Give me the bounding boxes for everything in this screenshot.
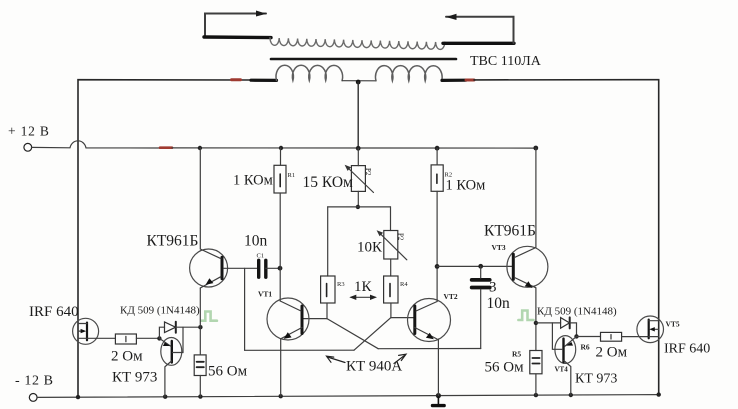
wire: primary center segment xyxy=(342,80,376,82)
transistor КТ961Б left driver : circle xyxy=(190,249,228,287)
node dots on bottom rail xyxy=(76,395,80,399)
svg-text:R3: R3 xyxy=(337,281,345,288)
red mark on right lead xyxy=(466,79,474,82)
wire: +12V rail xyxy=(172,147,536,149)
svg-text:15 КОм: 15 КОм xyxy=(303,174,354,191)
wire R1 top to rail xyxy=(280,148,282,165)
wire: primary left lead to left rail xyxy=(78,80,252,398)
svg-text:1 КОм: 1 КОм xyxy=(233,173,273,189)
wire: bottom -12V rail xyxy=(37,395,659,398)
wire R5 bottom to rail xyxy=(535,374,537,395)
left driver base bar xyxy=(221,257,224,279)
node R2 bottom / VT2 collector xyxy=(435,264,440,269)
VT3 emitter with arrow xyxy=(515,278,536,288)
MOSFET left channel bar xyxy=(86,323,88,341)
left driver base lead to C1 xyxy=(224,267,258,269)
VT2 emitter with arrow xyxy=(415,328,437,340)
svg-text:ТВС 110ЛА: ТВС 110ЛА xyxy=(470,54,542,69)
node C2 top xyxy=(478,264,483,269)
wire: right down to 10K pot xyxy=(390,207,392,231)
transistor КТ973 left (VT?) : ellipse xyxy=(161,338,182,366)
ground symbol xyxy=(437,396,439,405)
wire P2 top to rail xyxy=(357,148,359,165)
wire: horizontal between R3 and 10K columns xyxy=(328,206,391,208)
node right gate drive xyxy=(574,334,578,338)
VT4 base bar xyxy=(562,339,564,363)
node: left gate drive node xyxy=(157,336,161,340)
transformer T1 secondary winding xyxy=(270,38,445,50)
wire: node to diode anode right xyxy=(536,322,561,324)
VT2 collector diagonal xyxy=(416,302,437,312)
svg-text:VТ1: VТ1 xyxy=(258,290,272,299)
VT1 emitter with arrow xyxy=(281,328,302,339)
VT5 gate line through to rail xyxy=(649,336,659,338)
svg-text:3: 3 xyxy=(489,280,497,296)
resistor R2 box xyxy=(431,165,443,191)
left driver emitter with arrow xyxy=(200,277,221,288)
transformer T1 secondary right bracket xyxy=(443,14,514,44)
transformer T1 primary winding left half xyxy=(276,65,343,80)
svg-text:2 Ом: 2 Ом xyxy=(596,345,628,361)
transistor VT2 КТ940А : circle xyxy=(408,299,451,342)
pulse glyph right (green) xyxy=(518,311,533,321)
КТ973 left collector to rail xyxy=(165,361,172,397)
transistor VT3 КТ961Б right : circle xyxy=(507,246,548,287)
VT1 collector diagonal xyxy=(280,301,301,311)
red mark on +12V rail xyxy=(160,146,172,149)
P2 arrow xyxy=(347,167,374,193)
wire: driver emitter column xyxy=(199,288,201,355)
transistor VT1 КТ940А : circle xyxy=(267,298,309,340)
svg-text:1 КОм: 1 КОм xyxy=(446,178,486,194)
svg-text:VТ3: VТ3 xyxy=(492,243,506,252)
svg-text:+ 12 В: + 12 В xyxy=(8,124,50,139)
resistor R1 box xyxy=(274,165,286,193)
wire: diode cathode to driver emitter column xyxy=(176,326,201,328)
svg-text:R6: R6 xyxy=(581,343,590,352)
wire R3 bottom to VT1 base node xyxy=(326,303,328,319)
transformer T1 core xyxy=(271,58,456,61)
wire: center tap down to +12V rail xyxy=(357,82,359,148)
10К pot arrow xyxy=(379,233,407,260)
resistor 2 Ом left box xyxy=(115,334,136,344)
wire C2 top lead xyxy=(480,266,482,278)
svg-text:КТ 940А: КТ 940А xyxy=(346,359,402,375)
node: primary center tap xyxy=(356,80,361,85)
wire 2 Ом to gate node xyxy=(136,337,160,339)
node dots on +12V rail xyxy=(198,146,202,150)
wire R6 to VT5 gate xyxy=(622,336,649,338)
svg-text:2 Ом: 2 Ом xyxy=(111,349,143,365)
svg-text:КТ 973: КТ 973 xyxy=(575,372,617,387)
КТ973 left base bar xyxy=(171,341,173,363)
resistor R4 box xyxy=(384,276,398,303)
capacitor C1 plates xyxy=(257,260,260,277)
pulse glyph left (green) xyxy=(202,312,217,321)
VT2 base bar xyxy=(413,306,416,334)
svg-text:КД 509 (1N4148): КД 509 (1N4148) xyxy=(537,306,617,318)
svg-text:КТ 973: КТ 973 xyxy=(112,370,157,386)
svg-text:10n: 10n xyxy=(244,233,268,250)
wire R2 top to rail xyxy=(436,148,438,165)
diode КД509 right xyxy=(561,318,570,329)
svg-text:10n: 10n xyxy=(487,295,511,312)
svg-text:Р2: Р2 xyxy=(364,168,372,176)
svg-text:56 Ом: 56 Ом xyxy=(485,360,525,376)
svg-text:IRF 640: IRF 640 xyxy=(29,304,79,320)
terminal -12V xyxy=(29,394,37,402)
terminal +12V xyxy=(24,143,32,151)
svg-text:10К: 10К xyxy=(357,240,383,256)
wire: diagonal B up-left to VT1 base node xyxy=(327,319,378,349)
transistor КТ973 right VT4 : ellipse xyxy=(555,336,576,364)
svg-text:Р2: Р2 xyxy=(397,233,405,241)
wire P2 bottom to coupling wire xyxy=(357,191,359,207)
svg-text:R5: R5 xyxy=(512,350,521,359)
VT1 base bar xyxy=(301,306,304,334)
resistor R6 2 Ом right box xyxy=(601,332,622,341)
node: right emitter/diode junction xyxy=(534,321,538,325)
КТ973 left base lead (to diode cathode wire) xyxy=(173,327,184,352)
VT4 base lead to anode wire xyxy=(552,323,562,349)
wire: VT2 collector node to VT3 base xyxy=(437,265,513,267)
MOSFET left body arrow xyxy=(78,330,83,332)
svg-text:С1: С1 xyxy=(257,253,265,260)
wire: cross-couple horizontal B xyxy=(378,348,481,350)
node on emitter column xyxy=(198,325,202,329)
MOSFET left drain jog xyxy=(78,323,87,325)
diode КД509 left xyxy=(165,322,176,333)
wire: node up to diode anode xyxy=(159,327,164,338)
wire: +12V feed with hop over left rail xyxy=(31,141,160,148)
wire: cross-couple left vertical (driver base T down) xyxy=(244,268,246,350)
resistor R3 box xyxy=(321,276,335,303)
resistor R5 56 Ом right box xyxy=(530,351,542,374)
transformer T1 secondary left bracket xyxy=(204,11,271,38)
wire right gate node to R6 xyxy=(577,336,601,338)
capacitor C2 plates xyxy=(472,278,490,282)
wire VT1 base lead xyxy=(304,318,328,320)
wire R2 bottom to VT2 collector node xyxy=(436,191,438,301)
transformer T1 primary winding right half xyxy=(376,66,443,81)
КТ973 left emitter with arrow xyxy=(159,338,170,346)
MOSFET VT? IRF640 left : circle xyxy=(73,318,99,344)
resistor 56 Ом left box xyxy=(194,355,206,376)
VT5 body arrow xyxy=(653,328,659,330)
svg-text:56 Ом: 56 Ом xyxy=(208,364,248,380)
node P2 bottom xyxy=(356,205,360,209)
svg-text:VТ5: VТ5 xyxy=(666,320,680,329)
MOSFET VT5 IRF640 right : circle xyxy=(637,316,664,343)
wire diode cathode to right gate node xyxy=(570,323,577,337)
wire C2 bottom lead down and to cross-couple B xyxy=(480,289,482,348)
wire C1 right plate to VT1 collector column xyxy=(266,267,280,269)
left driver collector xyxy=(200,148,221,259)
svg-text:R4: R4 xyxy=(400,281,408,288)
VT4 collector to rail xyxy=(564,361,571,396)
wire 10К bottom to R4 xyxy=(390,259,392,276)
svg-text:КД 509 (1N4148): КД 509 (1N4148) xyxy=(120,305,200,317)
svg-text:IRF 640: IRF 640 xyxy=(664,342,710,357)
svg-text:VТ2: VТ2 xyxy=(444,292,458,301)
MOSFET left gate line to 2 Ом xyxy=(78,337,115,339)
red mark on left lead xyxy=(232,78,241,81)
svg-text:КТ961Б: КТ961Б xyxy=(147,233,199,250)
wire: primary right lead xyxy=(442,79,466,82)
VT5 channel bar xyxy=(648,320,650,339)
svg-text:1К: 1К xyxy=(354,279,373,295)
svg-text:КТ961Б: КТ961Б xyxy=(484,223,536,240)
wire: cross-couple horizontal A xyxy=(245,349,354,351)
wire: diagonal A up to R4 node xyxy=(354,318,391,351)
wire VT2 base lead xyxy=(391,317,414,319)
double arrow under 1К xyxy=(351,296,375,298)
VT3 base bar xyxy=(512,254,515,279)
wire: left down to R3 xyxy=(327,207,329,276)
potentiometer P2 15 КОм box xyxy=(351,166,365,192)
svg-text:VТ4: VТ4 xyxy=(555,366,569,374)
VT2 emitter down to rail xyxy=(437,339,439,396)
potentiometer 10К box xyxy=(384,231,398,260)
VT1 emitter down to rail xyxy=(280,339,282,397)
VT3 collector xyxy=(515,148,536,258)
svg-text:R1: R1 xyxy=(288,172,296,179)
wire R1 bottom to VT1 collector xyxy=(279,193,281,301)
wire R4 bottom to VT2 base node xyxy=(390,303,392,318)
svg-text:- 12 В: - 12 В xyxy=(15,374,54,389)
VT5 drain jog xyxy=(649,320,659,322)
VT4 emitter with arrow xyxy=(565,336,577,346)
node C1/R1/VT1 collector xyxy=(278,266,283,271)
VT3 emitter down xyxy=(535,288,537,351)
